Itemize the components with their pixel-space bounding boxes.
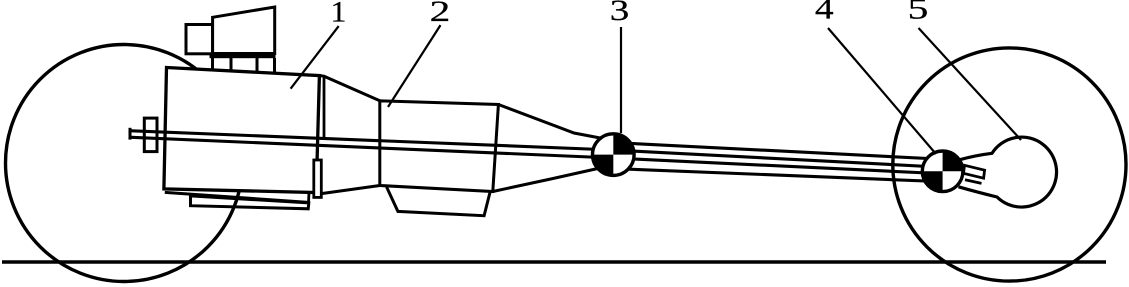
engine oil pan — [191, 196, 309, 209]
driveshaft tube top line — [612, 143, 938, 160]
bulb socket connector — [964, 165, 985, 178]
oil pan right edge upper extension — [307, 194, 310, 203]
transmission box (part 2) — [380, 101, 499, 192]
bellhousing plate — [314, 160, 322, 197]
CG symbol 4 — [922, 151, 963, 192]
CG symbol 3 — [593, 134, 635, 176]
air scoop — [213, 7, 275, 54]
scoop base bar — [210, 53, 276, 58]
transmission pan — [387, 187, 491, 216]
svg-text:3: 3 — [610, 0, 629, 27]
engine block front face (part 1) — [164, 68, 320, 193]
leader line 5 — [919, 28, 1022, 140]
rear wheel (left) — [6, 45, 243, 282]
leader line 3 — [620, 27, 622, 133]
leader line 1 — [291, 26, 339, 89]
mount foot 2 — [230, 58, 233, 71]
air intake box — [186, 25, 213, 54]
taper to driveshaft bottom — [493, 168, 600, 192]
leader line 2 — [388, 25, 441, 107]
push rod bottom edge — [129, 137, 939, 173]
push rod end cap — [129, 128, 132, 140]
mount foot 1 — [211, 58, 214, 71]
bulb socket lower line — [965, 180, 982, 184]
ground line — [2, 260, 1106, 263]
push rod top edge — [129, 131, 939, 167]
taper to driveshaft top — [498, 105, 616, 142]
svg-text:4: 4 — [815, 0, 834, 26]
leader line 4 — [828, 28, 936, 154]
engine right rear corner edge — [323, 76, 326, 139]
engine bottom second edge — [165, 192, 310, 202]
mount foot 3 — [256, 58, 259, 73]
mount foot 4 — [273, 58, 276, 73]
front wheel (right) — [893, 48, 1126, 281]
svg-text:5: 5 — [908, 0, 929, 25]
svg-text:2: 2 — [430, 0, 451, 28]
taper engine to transmission bottom — [321, 186, 380, 194]
driveshaft tube bottom line — [600, 168, 938, 182]
bulb component (part 5) — [959, 137, 1057, 207]
svg-text:1: 1 — [331, 0, 347, 28]
rod fitting — [144, 118, 157, 152]
taper engine to transmission top — [319, 76, 379, 101]
